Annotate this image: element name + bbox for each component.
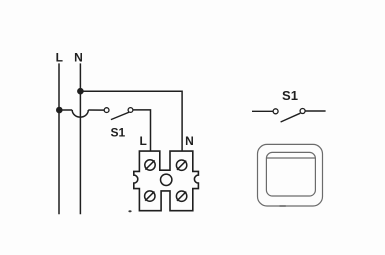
wire from hop to switch S1 — [88, 109, 104, 111]
junction dot on N — [77, 88, 84, 95]
screw bottom-right — [176, 191, 186, 201]
switch S1 symbol lever — [281, 113, 301, 122]
switch S1 right contact — [128, 108, 133, 113]
svg-text:L: L — [56, 51, 63, 65]
wire N vertical — [79, 63, 81, 214]
wall switch rocker seam — [267, 157, 316, 159]
wire from L junction to hop — [59, 109, 72, 111]
switch S1 lever — [111, 112, 129, 119]
svg-text:N: N — [74, 51, 83, 65]
svg-text:S1: S1 — [110, 126, 125, 140]
svg-text:L: L — [140, 134, 147, 148]
screw top-left — [145, 160, 155, 170]
terminal block outline — [134, 151, 199, 211]
svg-text:S1: S1 — [282, 88, 298, 103]
switch S1 symbol right lead — [306, 110, 326, 112]
switch S1 left contact — [104, 108, 109, 113]
switch S1 symbol left contact — [273, 109, 278, 114]
junction dot on L — [56, 107, 63, 114]
wall switch outer plate — [258, 144, 323, 206]
switch S1 symbol left lead — [252, 110, 273, 112]
svg-text:N: N — [185, 134, 194, 148]
wire from switch to terminal L — [133, 110, 150, 151]
stray ink speck — [128, 210, 131, 212]
switch S1 symbol right contact — [300, 109, 305, 114]
wire L vertical — [58, 63, 60, 214]
wall switch rocker — [266, 152, 315, 196]
terminal block center hole — [161, 174, 172, 185]
wall switch bottom mark — [280, 205, 286, 207]
wire hop over N — [72, 110, 88, 117]
screw bottom-left — [145, 191, 155, 201]
wire from N junction to terminal N — [80, 91, 182, 151]
screw top-right — [176, 160, 186, 170]
